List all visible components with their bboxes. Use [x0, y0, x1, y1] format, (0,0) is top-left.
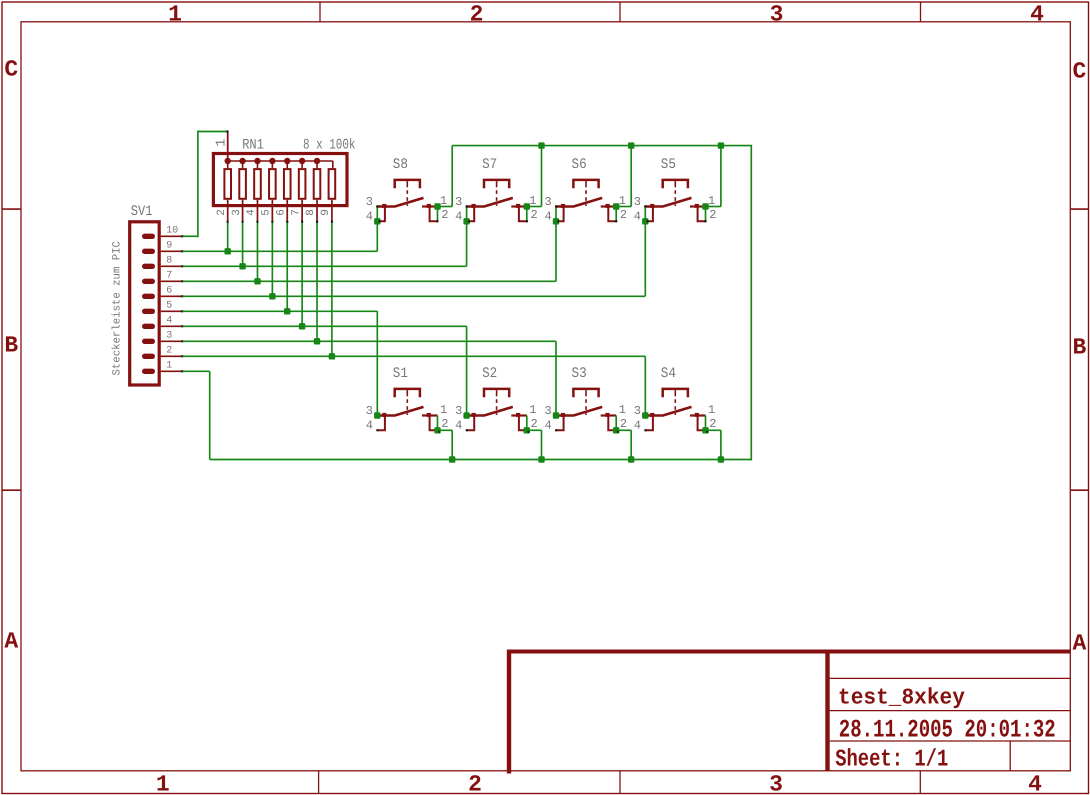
RN1 resistor element 5: [284, 169, 291, 199]
wire S4 pin2 to bottom bus: [706, 429, 721, 431]
S4 button bracket: [663, 389, 688, 397]
wire RN1 pin 7 down to node: [301, 223, 303, 327]
SV1 pin 3 stub: [161, 340, 183, 342]
S7 button bracket: [484, 180, 509, 188]
S7 pin 2 link: [519, 207, 527, 221]
wire S4 pin3 up to SV1 net: [644, 356, 646, 415]
wire SV1 pin 7 horizontal: [183, 280, 557, 282]
wire S4 pin1 to pin2: [705, 416, 707, 431]
wire RN1 pin 2 down to node: [227, 223, 229, 252]
S7 dashed actuator line: [496, 190, 498, 206]
S1 pin 1 stub: [422, 414, 438, 416]
S6 pin 2 link: [608, 207, 616, 221]
S8 lever: [377, 198, 423, 207]
svg-text:A: A: [4, 629, 18, 655]
wire S1 pin2 to bottom bus: [438, 429, 453, 431]
svg-text:2: 2: [441, 208, 448, 222]
svg-text:S8: S8: [393, 157, 408, 173]
S4 pin 4 link: [646, 416, 653, 430]
svg-text:1: 1: [708, 403, 715, 417]
svg-text:SV1: SV1: [131, 204, 153, 220]
svg-text:4: 4: [366, 209, 373, 223]
S3 dashed actuator line: [585, 399, 587, 415]
S2 pin 3 contact: [472, 413, 476, 417]
junction S7 pin 4: [463, 218, 469, 224]
S8 dashed actuator line: [406, 190, 408, 206]
SV1 pin 4 stub: [161, 325, 183, 327]
junction S5 pin 4: [642, 218, 648, 224]
wire S3 pin3 up to SV1 net: [555, 341, 557, 415]
svg-text:4: 4: [634, 418, 641, 432]
resistor network RN1 body: [213, 154, 347, 206]
junction bottom bus at S4: [718, 456, 724, 462]
S4 pin 2 link: [698, 416, 706, 430]
svg-text:2: 2: [441, 417, 448, 431]
RN1 bus junction 7: [314, 158, 320, 164]
SV1 pin 5 stub: [161, 310, 183, 312]
svg-text:6: 6: [275, 209, 287, 216]
junction S1 pin 2: [434, 427, 440, 433]
SV1 pin 5 pad: [142, 309, 155, 314]
RN1 bus junction 2: [239, 158, 245, 164]
svg-text:3: 3: [366, 195, 373, 209]
svg-text:3: 3: [634, 404, 641, 418]
S2 pin 1 stub: [511, 414, 527, 416]
frame column ticks top: [319, 2, 321, 22]
wire S7 pin1 up to top bus: [527, 206, 542, 208]
junction top bus at S7: [538, 142, 544, 148]
title block thick middle line: [825, 650, 829, 771]
S8 pin 2 link: [430, 207, 438, 221]
wire SV1 pin 6 horizontal: [183, 295, 646, 297]
wire RN1 pin 9 down to node: [331, 223, 333, 357]
RN1 pin 2 stub: [227, 200, 229, 222]
SV1 pin 4 pad: [142, 324, 155, 329]
svg-text:S5: S5: [661, 157, 676, 173]
svg-text:4: 4: [1028, 772, 1042, 795]
frame row ticks left: [2, 208, 21, 210]
wire S3 pin1 to pin2: [615, 416, 617, 431]
switch S4: [634, 356, 724, 462]
svg-text:C: C: [1072, 59, 1086, 85]
svg-text:2: 2: [166, 345, 172, 356]
S4 pin 1 stub: [690, 414, 706, 416]
S3 lever: [556, 407, 602, 416]
RN1 resistor element 4: [269, 169, 276, 199]
svg-text:8: 8: [166, 255, 172, 266]
svg-text:2: 2: [468, 772, 482, 795]
wire S1 pin1 to pin2: [437, 416, 439, 431]
wire S8 pin3/4 down to SV1 net: [376, 207, 378, 252]
svg-text:RN1: RN1: [242, 138, 264, 154]
junction bottom bus at S1: [449, 456, 455, 462]
bottom bus wire: [210, 459, 752, 461]
svg-text:S2: S2: [482, 366, 497, 382]
wire S5 pin1 up to top bus: [706, 206, 721, 208]
S1 dashed actuator line: [406, 399, 408, 415]
wire S6 pin3/4 down to SV1 net: [555, 207, 557, 282]
RN1 resistor element 1: [224, 169, 231, 199]
svg-text:1: 1: [168, 2, 182, 28]
wire S2 pin2 to bottom bus: [527, 429, 542, 431]
wire S5 pin3/4 down to SV1 net: [644, 207, 646, 297]
RN1 pin 9 stub: [331, 200, 333, 222]
SV1 pin 2 stub: [161, 355, 183, 357]
S2 button bracket: [484, 389, 509, 397]
wire RN1 pin 3 down to node: [242, 223, 244, 267]
SV1 pin 9 stub: [161, 250, 183, 252]
svg-text:4: 4: [166, 315, 172, 326]
junction S6 pin 1: [613, 203, 619, 209]
RN1 resistor element 7: [314, 169, 321, 199]
wire S3 pin2 to bottom bus: [616, 429, 631, 431]
svg-text:S6: S6: [572, 157, 587, 173]
junction top bus at S5: [718, 142, 724, 148]
junction S7 pin 1: [524, 203, 530, 209]
S2 lever: [467, 407, 513, 416]
wire S8 pin1 to pin2: [437, 207, 439, 222]
S3 button bracket: [573, 389, 598, 397]
svg-text:1: 1: [156, 772, 170, 795]
junction S1 pin 3: [374, 412, 380, 418]
connector SV1 body: [130, 222, 160, 385]
title block row divider 1: [830, 677, 1071, 679]
svg-text:6: 6: [166, 285, 172, 296]
junction S2 pin 3: [463, 412, 469, 418]
wire SV1 pin 4 horizontal: [183, 325, 467, 327]
title block row divider 2: [830, 710, 1071, 712]
wire SV1 pin 2 horizontal: [183, 355, 646, 357]
right vertical bus wire: [750, 145, 752, 461]
svg-text:2: 2: [531, 417, 538, 431]
wire SV1 pin 3 horizontal: [183, 340, 557, 342]
S4 pin 3 contact: [650, 413, 654, 417]
top bus wire: [452, 145, 751, 147]
svg-text:S7: S7: [482, 157, 497, 173]
svg-text:Steckerleiste zum PIC: Steckerleiste zum PIC: [112, 241, 124, 376]
wire S5 pin1 to pin2: [705, 207, 707, 222]
junction S3 pin 3: [553, 412, 559, 418]
svg-text:S4: S4: [661, 366, 676, 382]
SV1 pin 2 pad: [142, 354, 155, 359]
RN1 pin 1 stub: [227, 132, 229, 162]
wire S7 pin1 to pin2: [526, 207, 528, 222]
S8 pin 3 contact: [382, 204, 386, 208]
svg-text:4: 4: [544, 418, 551, 432]
SV1 pin 6 pad: [142, 294, 155, 299]
S6 lever: [556, 198, 602, 207]
switch S1: [366, 311, 456, 462]
svg-text:3: 3: [231, 209, 243, 216]
S2 dashed actuator line: [496, 399, 498, 415]
RN1 bus junction 3: [254, 158, 260, 164]
junction S3 pin 2: [613, 427, 619, 433]
junction bottom bus at S2: [538, 456, 544, 462]
svg-text:4: 4: [366, 418, 373, 432]
S6 dashed actuator line: [585, 190, 587, 206]
svg-text:7: 7: [290, 209, 302, 216]
SV1 pin 3 pad: [142, 339, 155, 344]
junction top bus at S6: [628, 142, 634, 148]
svg-text:3: 3: [769, 772, 783, 795]
frame column ticks bottom: [318, 771, 320, 794]
switch S8: [366, 146, 452, 252]
svg-text:S3: S3: [572, 366, 587, 382]
svg-text:A: A: [1072, 631, 1086, 657]
svg-text:1: 1: [440, 403, 447, 417]
RN1 internal bus: [228, 160, 333, 162]
RN1 pin 5 stub: [271, 200, 273, 222]
S4 dashed actuator line: [674, 399, 676, 415]
switch S5: [634, 142, 724, 296]
S7 pin 1 stub: [511, 205, 527, 207]
wire S6 pin1 to pin2: [615, 207, 617, 222]
switch S2: [455, 326, 545, 462]
junction S4 pin 2: [702, 427, 708, 433]
wire RN1 pin 6 down to node: [286, 223, 288, 312]
SV1 pin 8 pad: [142, 264, 155, 269]
RN1 pin 8 stub: [316, 200, 318, 222]
junction S6 pin 4: [553, 218, 559, 224]
svg-text:3: 3: [166, 330, 172, 341]
title block thick left line: [507, 650, 511, 774]
S5 pin 2 link: [698, 207, 706, 221]
svg-text:8: 8: [305, 209, 317, 216]
junction RN1 pin 9 net: [329, 353, 335, 359]
junction RN1 pin 2 net: [225, 248, 231, 254]
svg-text:4: 4: [246, 209, 258, 216]
svg-text:3: 3: [544, 195, 551, 209]
svg-text:2: 2: [620, 208, 627, 222]
wire SV1 pin 8 horizontal: [183, 265, 467, 267]
SV1 pin 7 pad: [142, 279, 155, 284]
svg-text:2: 2: [709, 417, 716, 431]
S5 pin 4 link: [646, 207, 653, 221]
svg-text:3: 3: [544, 404, 551, 418]
RN1 pin 6 stub: [286, 200, 288, 222]
S6 button bracket: [573, 180, 598, 188]
S3 pin 4 link: [556, 416, 563, 430]
wire SV1 pin 9 horizontal: [183, 250, 378, 252]
svg-text:28.11.2005 20:01:32: 28.11.2005 20:01:32: [839, 715, 1056, 744]
S8 button bracket: [395, 180, 420, 188]
wire SV1 pin 10 to RN1 pin 1: [183, 235, 198, 237]
svg-text:4: 4: [544, 209, 551, 223]
svg-text:3: 3: [455, 195, 462, 209]
S5 pin 1 stub: [690, 205, 706, 207]
RN1 resistor element 8: [329, 169, 336, 199]
junction RN1 pin 4 net: [254, 278, 260, 284]
wire RN1 pin 4 down to node: [256, 223, 258, 282]
svg-text:1: 1: [166, 360, 172, 371]
junction S2 pin 2: [524, 427, 530, 433]
S1 pin 4 link: [378, 416, 385, 430]
wire S8 pin1 up to top bus: [438, 206, 453, 208]
svg-text:B: B: [4, 332, 18, 358]
RN1 pin 7 stub: [301, 200, 303, 222]
junction RN1 pin 8 net: [314, 338, 320, 344]
RN1 pin 4 stub: [256, 200, 258, 222]
S7 lever: [467, 198, 513, 207]
svg-text:4: 4: [455, 418, 462, 432]
S2 pin 4 link: [467, 416, 474, 430]
title block thick top line: [507, 650, 1070, 654]
junction RN1 pin 7 net: [299, 323, 305, 329]
switch S3: [544, 341, 634, 462]
svg-text:Sheet: 1/1: Sheet: 1/1: [835, 747, 948, 774]
S8 pin 4 link: [378, 207, 385, 221]
S8 pin 1 stub: [422, 205, 438, 207]
svg-text:5: 5: [261, 209, 273, 216]
S6 pin 3 contact: [561, 204, 565, 208]
svg-text:3: 3: [455, 404, 462, 418]
S5 dashed actuator line: [674, 190, 676, 206]
svg-text:4: 4: [455, 209, 462, 223]
junction RN1 pin 3 net: [239, 263, 245, 269]
RN1 bus junction 6: [299, 158, 305, 164]
SV1 pin 7 stub: [161, 280, 183, 282]
wire S7 pin3/4 down to SV1 net: [466, 207, 468, 267]
svg-text:9: 9: [320, 209, 332, 216]
SV1 pin 9 pad: [142, 249, 155, 254]
switch S6: [544, 142, 634, 281]
SV1 pin 8 stub: [161, 265, 183, 267]
S3 pin 3 contact: [561, 413, 565, 417]
S7 pin 4 link: [467, 207, 474, 221]
frame row ticks right: [1070, 208, 1088, 210]
S2 pin 2 link: [519, 416, 527, 430]
svg-text:3: 3: [634, 195, 641, 209]
svg-text:4: 4: [634, 209, 641, 223]
S1 button bracket: [395, 389, 420, 397]
S3 pin 1 stub: [601, 414, 617, 416]
svg-text:10: 10: [166, 225, 178, 236]
svg-text:7: 7: [166, 270, 172, 281]
junction S8 pin 4: [374, 218, 380, 224]
wire SV1 pin 5 horizontal: [183, 310, 378, 312]
S3 pin 2 link: [608, 416, 616, 430]
RN1 resistor element 2: [239, 169, 246, 199]
wire SV1 pin 1 to bottom bus: [183, 370, 210, 372]
svg-text:2: 2: [620, 417, 627, 431]
RN1 bus junction 4: [269, 158, 275, 164]
svg-text:9: 9: [166, 240, 172, 251]
RN1 resistor element 6: [299, 169, 306, 199]
SV1 pin 6 stub: [161, 295, 183, 297]
svg-text:test_8xkey: test_8xkey: [838, 685, 965, 711]
switch S7: [455, 142, 545, 266]
wire S6 pin1 up to top bus: [616, 206, 631, 208]
svg-text:3: 3: [770, 2, 784, 28]
S1 pin 2 link: [430, 416, 438, 430]
svg-text:1: 1: [215, 139, 230, 147]
S1 lever: [377, 407, 423, 416]
S7 pin 3 contact: [472, 204, 476, 208]
junction S5 pin 1: [702, 203, 708, 209]
svg-text:1: 1: [619, 403, 626, 417]
S5 button bracket: [663, 180, 688, 188]
svg-text:2: 2: [216, 209, 228, 216]
wire RN1 pin 8 down to node: [316, 223, 318, 342]
SV1 pin 10 stub: [161, 235, 183, 237]
wire S2 pin3 up to SV1 net: [466, 326, 468, 415]
S6 pin 4 link: [556, 207, 563, 221]
svg-text:1: 1: [529, 403, 536, 417]
svg-text:S1: S1: [393, 366, 408, 382]
svg-text:3: 3: [366, 404, 373, 418]
S1 pin 3 contact: [382, 413, 386, 417]
SV1 pin 10 pad: [142, 234, 155, 239]
svg-text:5: 5: [166, 300, 172, 311]
svg-text:B: B: [1072, 334, 1086, 360]
RN1 resistor element 3: [254, 169, 261, 199]
svg-text:4: 4: [1030, 2, 1044, 28]
wire S1 pin3 up to SV1 net: [376, 311, 378, 415]
RN1 bus junction 5: [284, 158, 290, 164]
SV1 pin 1 pad: [142, 369, 155, 374]
wire S2 pin1 to pin2: [526, 416, 528, 431]
svg-text:2: 2: [709, 208, 716, 222]
junction bottom bus at S3: [628, 456, 634, 462]
junction RN1 pin 5 net: [269, 293, 275, 299]
svg-text:8 x 100k: 8 x 100k: [303, 138, 355, 154]
S5 pin 3 contact: [650, 204, 654, 208]
title block sheet cell divider: [1009, 741, 1011, 771]
SV1 pin 1 stub: [161, 370, 183, 372]
S4 lever: [645, 407, 691, 416]
RN1 bus junction 1: [225, 158, 231, 164]
junction RN1 pin 6 net: [284, 308, 290, 314]
junction S8 pin 1: [434, 203, 440, 209]
junction S4 pin 3: [642, 412, 648, 418]
svg-text:2: 2: [531, 208, 538, 222]
RN1 pin 3 stub: [242, 200, 244, 222]
S5 lever: [645, 198, 691, 207]
S6 pin 1 stub: [601, 205, 617, 207]
title block row divider 3: [830, 740, 1071, 742]
wire RN1 pin 5 down to node: [271, 223, 273, 297]
svg-text:C: C: [4, 57, 18, 83]
svg-text:2: 2: [470, 2, 484, 28]
